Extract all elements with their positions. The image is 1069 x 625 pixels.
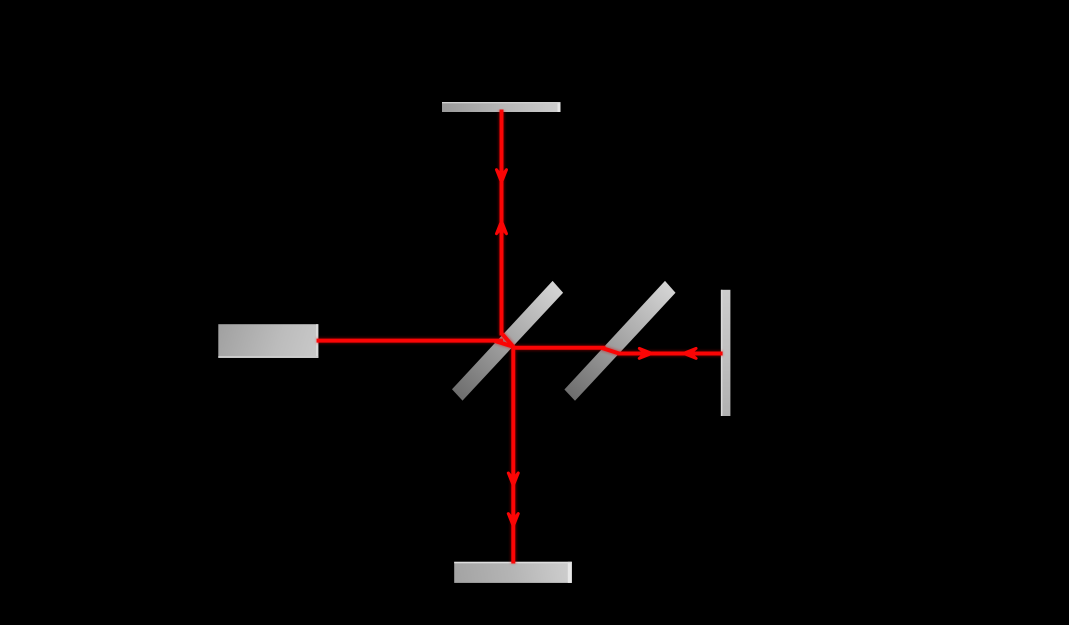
- beam glow layer: [317, 111, 723, 564]
- wire: refracted segment inside compensator: [602, 348, 620, 354]
- wire: vertical beam up to top mirror: [500, 110, 504, 336]
- laser source box: [218, 324, 318, 358]
- wire: horizontal beam BS to compensator: [512, 346, 606, 350]
- arrow up (upper vertical beam, toward mirror): [497, 221, 507, 234]
- arrow down 1 (lower vertical beam): [508, 473, 518, 486]
- wire: reflected segment inside beamsplitter: [502, 333, 514, 347]
- arrow right (beam toward right mirror): [639, 348, 652, 358]
- compensator plate (second diagonal plate): [564, 281, 675, 401]
- wire: incoming beam laser to beamsplitter: [317, 339, 504, 343]
- arrow down 2 (lower vertical beam): [508, 514, 518, 527]
- detector screen (bottom bar): [454, 562, 572, 583]
- top mirror M1: [442, 102, 561, 112]
- wire: refracted segment inside beamsplitter: [495, 341, 514, 347]
- arrow down (upper vertical beam, return from top mirror): [497, 170, 507, 183]
- beam splitter BS (center diagonal plate): [452, 281, 563, 401]
- right mirror M2: [721, 290, 731, 416]
- arrow left (beam returning from right mirror): [684, 348, 697, 358]
- wire: vertical beam down to detector: [511, 346, 515, 564]
- wire: horizontal beam compensator to right mirror: [618, 352, 723, 356]
